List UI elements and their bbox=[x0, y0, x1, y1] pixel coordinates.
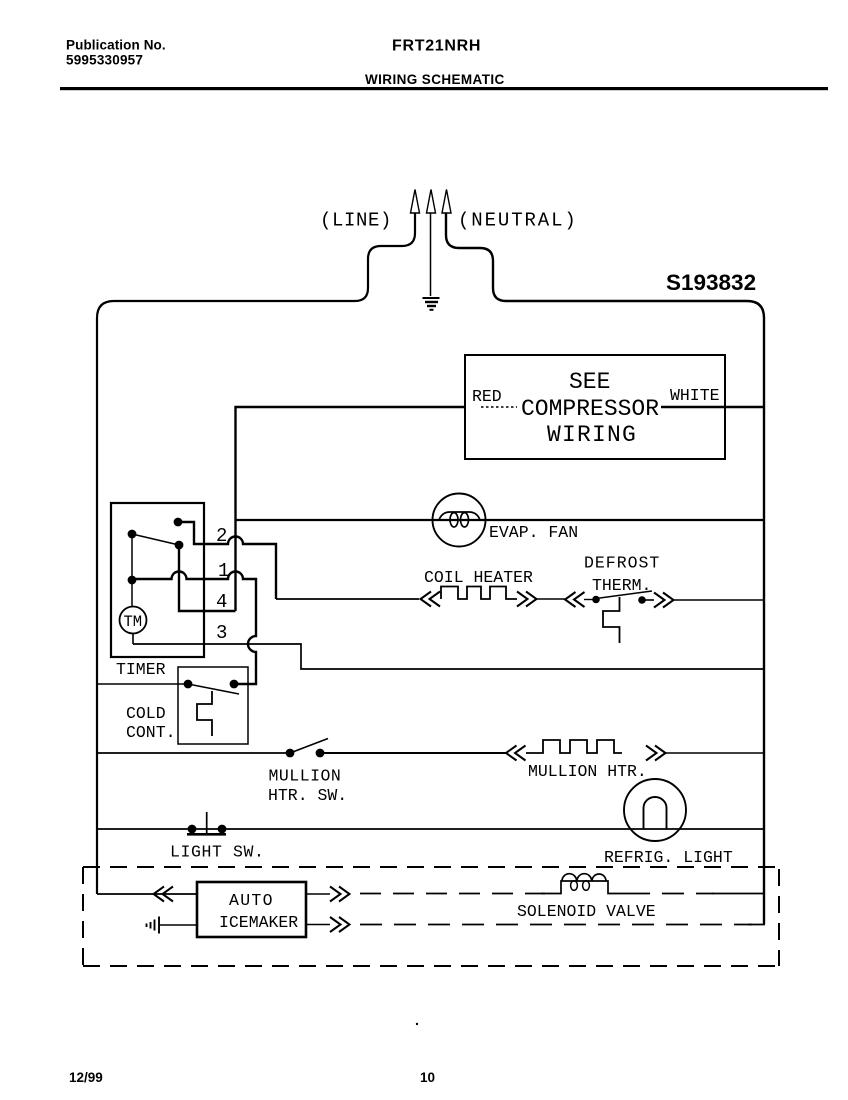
svg-text:HTR. SW.: HTR. SW. bbox=[268, 786, 347, 805]
wire: ground to icemaker bbox=[159, 924, 197, 926]
svg-text:WIRING SCHEMATIC: WIRING SCHEMATIC bbox=[365, 72, 505, 87]
svg-text:WHITE: WHITE bbox=[670, 386, 720, 405]
defrost thermostat sensing element bbox=[603, 597, 620, 643]
mullion heater element R2 bbox=[526, 740, 622, 753]
wire: white lead from compressor bbox=[661, 406, 764, 409]
svg-text:MULLION: MULLION bbox=[269, 767, 342, 786]
timer internal wire bbox=[131, 534, 133, 606]
wire: mullion heater to right bus bbox=[666, 752, 765, 754]
connector chevrons on icemaker feed bbox=[154, 887, 174, 902]
timer box bbox=[111, 503, 204, 657]
svg-text:12/99: 12/99 bbox=[69, 1070, 103, 1085]
svg-text:MULLION HTR.: MULLION HTR. bbox=[528, 762, 647, 781]
svg-text:5995330957: 5995330957 bbox=[66, 53, 143, 68]
connector chevrons left of coil heater bbox=[421, 592, 441, 607]
wire: mullion switch to heater bbox=[320, 752, 506, 754]
wire: dashed return line to right bus bbox=[360, 924, 752, 926]
compressor box U1 bbox=[465, 355, 725, 459]
wire: refrig light line bbox=[97, 828, 764, 830]
wire: dashed solenoid line right bbox=[628, 893, 714, 895]
coil heater element R1 bbox=[441, 587, 517, 600]
mullion heater switch arm bbox=[290, 739, 328, 754]
wire: line input to main loop (left top) bbox=[97, 213, 415, 895]
svg-text:TIMER: TIMER bbox=[116, 660, 166, 679]
svg-text:WIRING: WIRING bbox=[547, 422, 637, 448]
connector chevrons icemaker bottom output bbox=[330, 917, 350, 932]
wire: icemaker bottom output bbox=[306, 924, 330, 926]
neutral input arrow bbox=[442, 190, 451, 214]
svg-text:(NEUTRAL): (NEUTRAL) bbox=[458, 210, 578, 232]
svg-text:Publication No.: Publication No. bbox=[66, 38, 166, 53]
svg-text:(LINE): (LINE) bbox=[320, 210, 392, 232]
svg-text:4: 4 bbox=[216, 591, 227, 613]
svg-text:DEFROST: DEFROST bbox=[584, 554, 660, 573]
line input arrow bbox=[411, 190, 420, 214]
cold control contact dots bbox=[184, 680, 193, 689]
cold control switch arm bbox=[188, 684, 239, 694]
svg-text:RED: RED bbox=[472, 387, 502, 406]
timer motor lead to pin 3 bbox=[132, 634, 134, 645]
wire: timer pin 3 to right bus bbox=[133, 644, 764, 669]
defrost thermostat arm bbox=[596, 591, 652, 599]
wire: timer pin 2 to coil heater line bbox=[178, 522, 276, 599]
defrost thermostat contact dots bbox=[592, 596, 600, 604]
svg-text:CONT.: CONT. bbox=[126, 723, 176, 742]
timer switch arm bbox=[132, 534, 179, 545]
wire: coil heater line bbox=[276, 598, 419, 600]
wire: coil heater to defrost therm bbox=[537, 598, 566, 600]
header rule bbox=[60, 87, 828, 90]
icemaker option dashed enclosure bbox=[83, 867, 779, 966]
svg-text:SEE: SEE bbox=[569, 369, 610, 395]
connector chevrons left of defrost therm bbox=[565, 592, 585, 607]
refrigerator light lamp DS1 bbox=[624, 779, 686, 841]
svg-text:COLD: COLD bbox=[126, 704, 166, 723]
light switch dots bbox=[188, 825, 197, 834]
wire: neutral input to main loop (right top) bbox=[446, 213, 764, 925]
wire: red dashed stub bbox=[481, 406, 517, 408]
wire: defrost therm to chevrons bbox=[642, 599, 654, 601]
evap fan motor M1 bbox=[433, 494, 486, 547]
stray printing dot bbox=[416, 1023, 418, 1025]
cold control box bbox=[178, 667, 248, 744]
svg-text:S193832: S193832 bbox=[666, 270, 756, 295]
connector chevrons right of mullion heater bbox=[646, 746, 666, 761]
cold control sensing element bbox=[197, 691, 212, 736]
wire: timer pin 4 bbox=[179, 545, 236, 611]
connector chevrons right of defrost therm bbox=[654, 593, 674, 608]
wire: red lead to compressor bbox=[236, 407, 466, 611]
wire: chevron to defrost contact bbox=[584, 599, 594, 601]
wire: left bus to cold control bbox=[97, 683, 188, 685]
wire: dashed solenoid line left bbox=[360, 893, 545, 895]
ground symbol bbox=[423, 298, 440, 310]
ground input arrow bbox=[427, 190, 436, 214]
svg-text:FRT21NRH: FRT21NRH bbox=[392, 38, 481, 55]
light switch plunger bbox=[187, 833, 226, 836]
svg-text:AUTO: AUTO bbox=[229, 891, 274, 910]
auto icemaker box bbox=[197, 882, 306, 937]
fan motor winding bbox=[439, 512, 480, 520]
connector chevrons icemaker top output bbox=[330, 887, 350, 902]
svg-text:REFRIG. LIGHT: REFRIG. LIGHT bbox=[604, 848, 733, 867]
wire: timer pin 1 to cold control bbox=[132, 572, 256, 684]
svg-text:SOLENOID VALVE: SOLENOID VALVE bbox=[517, 902, 656, 921]
ground wire bbox=[430, 213, 432, 297]
wire: mullion heater line left bbox=[97, 752, 290, 754]
svg-text:COIL HEATER: COIL HEATER bbox=[424, 568, 533, 587]
connector chevrons right of coil heater bbox=[517, 592, 537, 607]
solenoid valve coil L1 bbox=[541, 881, 628, 894]
svg-text:3: 3 bbox=[216, 622, 227, 644]
wire: left bus to icemaker bbox=[97, 893, 197, 895]
connector chevrons left of mullion heater bbox=[506, 746, 526, 761]
timer contact dots bbox=[174, 518, 183, 527]
icemaker chassis ground bbox=[147, 917, 160, 934]
mullion heater switch dots bbox=[286, 749, 295, 758]
svg-text:EVAP. FAN: EVAP. FAN bbox=[489, 523, 578, 542]
wire: solenoid line to right bus bbox=[712, 893, 764, 895]
wire: defrost therm line to right bus bbox=[674, 599, 765, 601]
svg-text:LIGHT SW.: LIGHT SW. bbox=[170, 843, 265, 862]
svg-text:COMPRESSOR: COMPRESSOR bbox=[521, 396, 659, 422]
svg-text:TM: TM bbox=[124, 613, 143, 631]
svg-text:ICEMAKER: ICEMAKER bbox=[219, 913, 298, 932]
svg-text:10: 10 bbox=[420, 1070, 435, 1085]
timer motor TM bbox=[120, 607, 147, 634]
wire: icemaker top output bbox=[306, 893, 330, 895]
wire: evap fan branch bbox=[236, 519, 765, 521]
